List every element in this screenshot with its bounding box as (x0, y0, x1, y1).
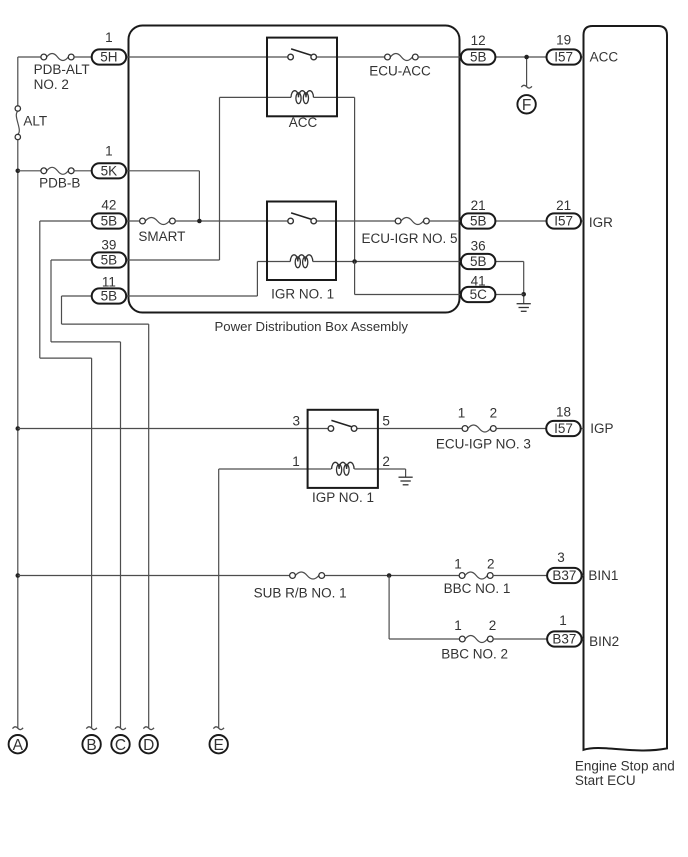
svg-text:5C: 5C (470, 287, 488, 302)
svg-text:IGP: IGP (590, 421, 613, 436)
svg-text:ECU-IGP NO. 3: ECU-IGP NO. 3 (436, 437, 531, 452)
svg-text:1: 1 (454, 557, 462, 572)
svg-text:5H: 5H (100, 50, 117, 65)
svg-text:2: 2 (487, 557, 495, 572)
svg-text:Power Distribution Box Assembl: Power Distribution Box Assembly (215, 319, 409, 334)
svg-text:E: E (214, 737, 224, 754)
svg-text:PDB-ALT: PDB-ALT (34, 62, 90, 77)
svg-text:Start ECU: Start ECU (575, 773, 636, 788)
svg-text:42: 42 (101, 198, 116, 213)
svg-text:1: 1 (292, 454, 300, 469)
svg-text:5B: 5B (470, 50, 487, 65)
svg-text:ECU-IGR NO. 5: ECU-IGR NO. 5 (361, 231, 457, 246)
svg-text:2: 2 (382, 454, 390, 469)
svg-text:ALT: ALT (23, 113, 47, 128)
svg-text:1: 1 (105, 30, 113, 45)
svg-text:ACC: ACC (590, 50, 619, 65)
svg-text:1: 1 (559, 613, 567, 628)
svg-text:5K: 5K (101, 164, 118, 179)
svg-text:21: 21 (471, 198, 486, 213)
svg-text:5B: 5B (470, 254, 487, 269)
svg-text:BBC NO. 1: BBC NO. 1 (444, 581, 511, 596)
svg-text:B37: B37 (552, 632, 576, 647)
svg-text:2: 2 (490, 406, 498, 421)
svg-text:36: 36 (471, 238, 486, 253)
svg-text:11: 11 (102, 274, 116, 289)
svg-text:3: 3 (292, 414, 300, 429)
svg-text:IGR: IGR (589, 215, 613, 230)
svg-text:5B: 5B (101, 214, 118, 229)
svg-text:5B: 5B (101, 289, 118, 304)
svg-text:BIN2: BIN2 (589, 634, 619, 649)
svg-text:2: 2 (489, 618, 497, 633)
svg-text:5: 5 (382, 414, 390, 429)
svg-text:SMART: SMART (138, 229, 185, 244)
svg-text:IGP NO. 1: IGP NO. 1 (312, 490, 374, 505)
svg-text:NO. 2: NO. 2 (34, 77, 69, 92)
svg-text:SUB R/B NO. 1: SUB R/B NO. 1 (254, 586, 347, 601)
svg-text:18: 18 (556, 404, 571, 419)
svg-text:Engine Stop and: Engine Stop and (575, 759, 675, 774)
svg-text:1: 1 (105, 144, 113, 159)
svg-text:1: 1 (458, 406, 466, 421)
svg-text:B: B (86, 737, 96, 754)
svg-text:BBC NO. 2: BBC NO. 2 (441, 647, 508, 662)
svg-text:C: C (115, 737, 126, 754)
svg-text:I57: I57 (554, 214, 573, 229)
svg-text:5B: 5B (101, 253, 118, 268)
svg-text:IGR NO. 1: IGR NO. 1 (271, 286, 334, 301)
svg-text:1: 1 (454, 618, 462, 633)
svg-text:D: D (143, 737, 154, 754)
svg-text:21: 21 (556, 198, 571, 213)
svg-text:PDB-B: PDB-B (39, 176, 80, 191)
svg-text:12: 12 (471, 33, 486, 48)
svg-text:19: 19 (556, 33, 571, 48)
svg-text:3: 3 (557, 550, 565, 565)
svg-text:A: A (13, 737, 24, 754)
svg-text:BIN1: BIN1 (588, 568, 618, 583)
svg-text:41: 41 (471, 273, 486, 288)
svg-text:B37: B37 (552, 568, 576, 583)
svg-text:F: F (522, 97, 531, 114)
svg-text:39: 39 (101, 238, 116, 253)
svg-text:ECU-ACC: ECU-ACC (369, 64, 431, 79)
svg-text:ACC: ACC (289, 115, 318, 130)
svg-text:5B: 5B (470, 214, 487, 229)
svg-text:I57: I57 (554, 50, 573, 65)
svg-text:I57: I57 (554, 421, 573, 436)
